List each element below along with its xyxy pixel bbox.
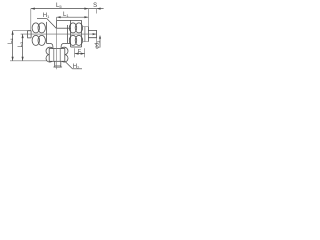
dimension S line segment (88, 8, 96, 10)
bore leader arrow at right stub end (93, 33, 97, 35)
dimension F ext lines (74, 48, 76, 57)
left dim outer line L4 (12, 31, 14, 61)
body bottom edge right piece (64, 42, 71, 44)
L1 extension x=56.6 (56, 17, 58, 28)
svg-text:L3: L3 (18, 41, 24, 47)
extension baseline bottom (10, 60, 47, 62)
branch stub chamfer (55, 64, 61, 66)
branch stub end flange (53, 66, 62, 68)
svg-text:S: S (93, 3, 97, 9)
branch hex nut body (49, 49, 65, 62)
phi-d3 extension below stub (96, 38, 98, 48)
svg-text:L4: L4 (8, 38, 14, 44)
branch bead ring row2 right (60, 55, 68, 63)
body step face at branch centerline (56, 20, 58, 28)
body top edge high (right) (57, 19, 82, 21)
svg-text:H2: H2 (73, 64, 80, 70)
right hex bottom edge (82, 41, 89, 43)
right nut right face (81, 20, 83, 47)
dimension line L5 (31, 8, 89, 10)
body left face (46, 22, 48, 44)
left bead ellipse top-right (38, 23, 45, 33)
dimension F line (75, 53, 85, 55)
right bead ellipse top-right (75, 23, 82, 33)
body top edge low (left) (56, 27, 70, 29)
body bottom edge left piece (47, 42, 50, 44)
branch hex facet right (59, 49, 61, 62)
branch bead ring row1 right (60, 47, 68, 55)
branch centerline (56, 17, 58, 69)
left bead ellipse top-left (32, 23, 39, 33)
svg-text:φd3: φd3 (95, 41, 101, 49)
dimension S outside arrow (97, 8, 104, 10)
body right face (67, 25, 69, 43)
H1 leader diagonal (47, 19, 56, 29)
left stub tube (28, 31, 32, 38)
branch fillet left (50, 43, 53, 48)
left dim inner line L3 (22, 34, 24, 61)
branch fillet right (61, 43, 64, 48)
right nut left face (70, 20, 72, 47)
H1 leader underline (37, 18, 47, 20)
right bead ellipse bottom-right (75, 35, 82, 45)
left bead ellipse bottom-left (32, 35, 39, 45)
left bead ellipse bottom-right (38, 35, 45, 45)
run centerline (21, 33, 97, 35)
branch stub tube (55, 61, 61, 67)
extension line x=96.6 short (96, 9, 98, 14)
branch bead ring row1 left (46, 47, 54, 55)
svg-text:H1: H1 (43, 13, 50, 19)
svg-text:L5: L5 (56, 3, 62, 9)
branch bead ring row2 left (46, 55, 54, 63)
extension line x=88.4 (87, 9, 89, 31)
right hex facet (84, 27, 86, 42)
right stub tube (88, 31, 96, 38)
branch hex facet left (53, 49, 55, 62)
right nut bottom edge (71, 46, 82, 48)
extension line left x=30.8 (30, 9, 32, 31)
dimension H2 leader (65, 61, 72, 68)
right hex top edge (82, 26, 89, 28)
right bead ellipse top-left (69, 23, 76, 33)
dimension line L1 (57, 16, 89, 18)
extension line stub top left (13, 30, 28, 32)
dimension phi-d3 arrow and line (99, 38, 101, 48)
right bead ellipse bottom-left (69, 35, 76, 45)
right hex right face (87, 27, 89, 42)
